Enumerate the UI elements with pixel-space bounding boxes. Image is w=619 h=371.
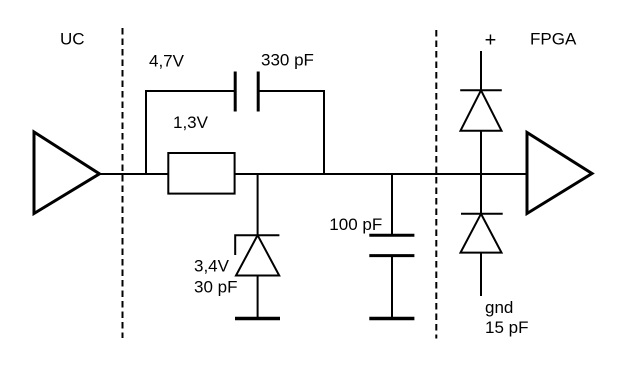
svg-text:4,7V: 4,7V: [149, 51, 185, 70]
capacitor C1 330 pF: [235, 72, 258, 112]
buffer U1 (UC output driver): [34, 132, 100, 214]
wire D2 anode lead: [480, 131, 482, 174]
wire zener cathode lead: [257, 174, 259, 235]
svg-text:+: +: [485, 29, 497, 51]
boundary UC (dashed): [122, 28, 124, 338]
wire D3 anode lead (to gnd): [480, 253, 482, 296]
wire zener anode lead: [257, 276, 259, 318]
wire C2 bottom lead: [391, 256, 393, 317]
wire D3 cathode lead: [480, 174, 482, 214]
svg-text:3,4V: 3,4V: [194, 257, 230, 276]
ground (C2): [369, 317, 414, 321]
svg-text:30 pF: 30 pF: [194, 278, 237, 297]
wire main net: [100, 173, 528, 175]
wire 4,7V loop right vertical: [260, 91, 325, 174]
svg-text:330 pF: 330 pF: [261, 51, 314, 70]
capacitor C2 100 pF: [369, 235, 414, 255]
wire 4,7V loop left vertical: [146, 91, 234, 174]
zener diode D1 3,4V: [235, 235, 279, 275]
diode D2 (clamp to +): [460, 90, 502, 130]
boundary FPGA (dashed): [435, 30, 437, 339]
resistor R1 (1,3V drop): [168, 153, 234, 194]
svg-text:1,3V: 1,3V: [173, 113, 209, 132]
diode D3 (clamp to gnd): [461, 214, 503, 253]
svg-text:100 pF: 100 pF: [329, 215, 382, 234]
svg-text:15 pF: 15 pF: [485, 318, 528, 337]
wire C2 top lead: [391, 174, 393, 234]
svg-text:gnd: gnd: [485, 298, 513, 317]
svg-text:FPGA: FPGA: [530, 30, 577, 49]
wire D2 cathode lead (to +): [480, 51, 482, 91]
svg-text:UC: UC: [60, 30, 85, 49]
ground (zener): [235, 317, 280, 321]
buffer U2 (FPGA input): [527, 133, 592, 214]
